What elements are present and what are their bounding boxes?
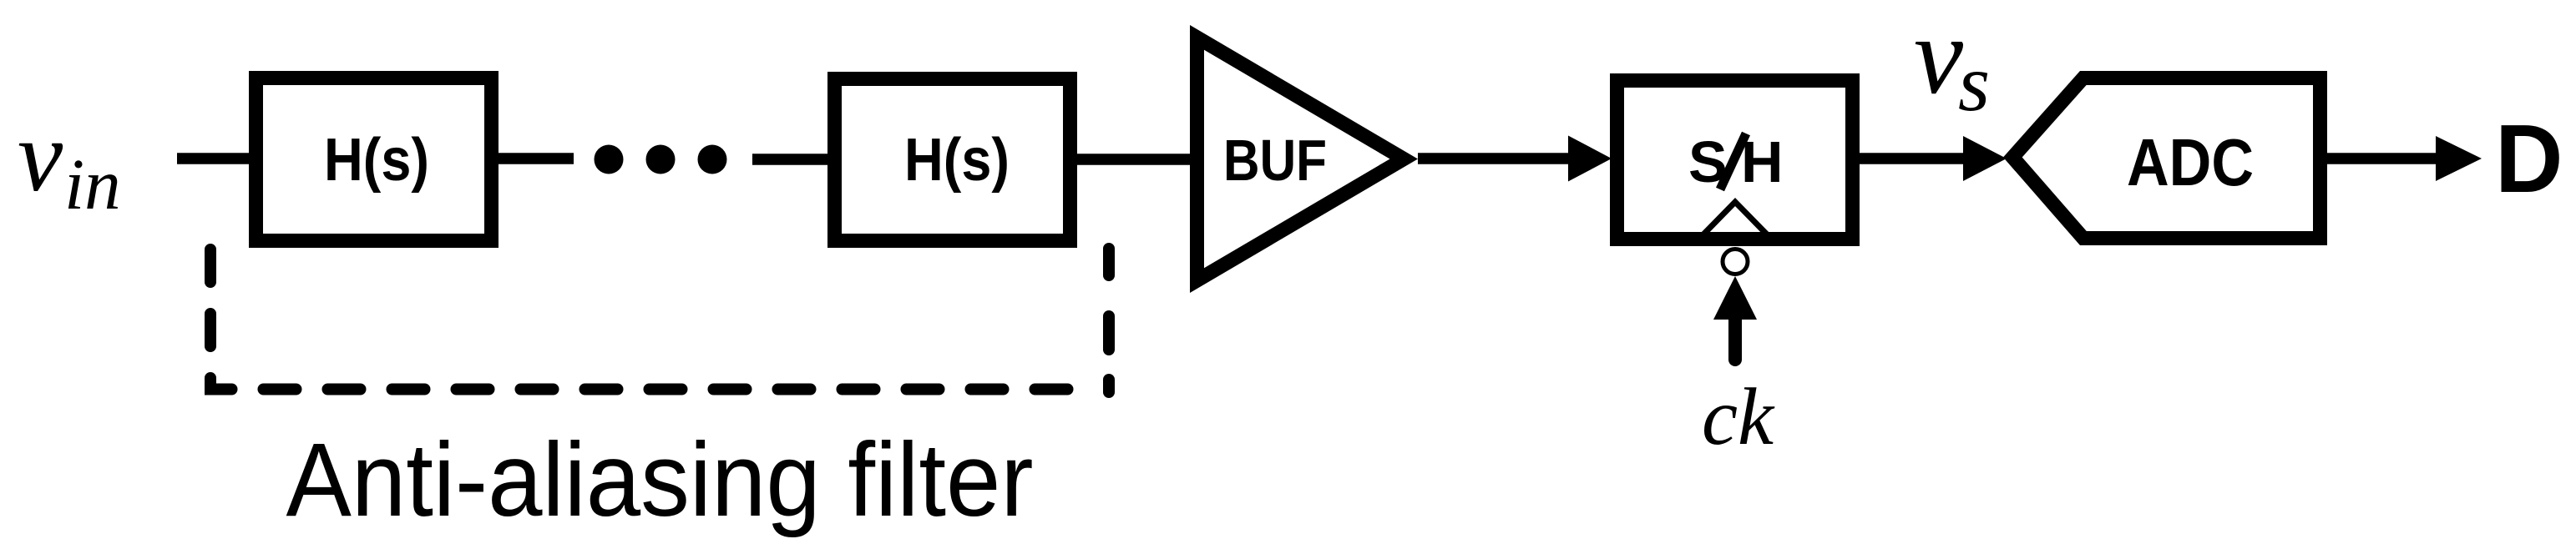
svg-text:v: v	[18, 100, 63, 213]
filter block H(s) #1	[256, 78, 492, 241]
svg-text:s: s	[1958, 38, 1990, 128]
wire H(s)#1 to dots	[498, 153, 574, 164]
ellipsis dot 2	[646, 145, 676, 174]
svg-text:v: v	[1914, 0, 1964, 117]
wire ADC to D with arrowhead	[2327, 136, 2482, 181]
svg-text:D: D	[2495, 104, 2563, 213]
ellipsis dot 3	[698, 145, 727, 174]
svg-text:ADC: ADC	[2127, 125, 2254, 199]
clock bubble	[1723, 249, 1748, 275]
ellipsis dot 1	[595, 145, 624, 174]
clock arrow	[1713, 276, 1757, 360]
svg-text:BUF: BUF	[1223, 128, 1327, 193]
svg-text:H(s): H(s)	[324, 127, 429, 194]
node vs label	[1914, 0, 1990, 128]
filter block H(s) #2	[835, 79, 1070, 241]
wire dots to H(s) box 2	[752, 154, 831, 165]
ADC block	[2003, 71, 2327, 245]
svg-text:H(s): H(s)	[904, 127, 1010, 194]
wire BUF to S/H with arrowhead	[1418, 136, 1612, 182]
dashed anti-aliasing boundary (right side dashes)	[1103, 249, 1115, 392]
svg-text:in: in	[64, 144, 121, 224]
wire S/H to ADC with arrowhead	[1860, 136, 2007, 181]
buffer amplifier BUF	[1190, 25, 1418, 293]
node vin label	[18, 100, 121, 224]
wire vin to H(s) box 1	[177, 153, 259, 164]
svg-text:H: H	[1741, 129, 1784, 194]
svg-text:ck: ck	[1702, 372, 1775, 461]
sample-and-hold block S/H	[1617, 81, 1853, 239]
svg-text:Anti-aliasing filter: Anti-aliasing filter	[286, 422, 1034, 538]
clock edge triangle on S/H	[1700, 202, 1770, 238]
wire H(s)#2 to BUF	[1077, 154, 1200, 165]
dashed anti-aliasing boundary (left + bottom)	[210, 249, 1077, 390]
